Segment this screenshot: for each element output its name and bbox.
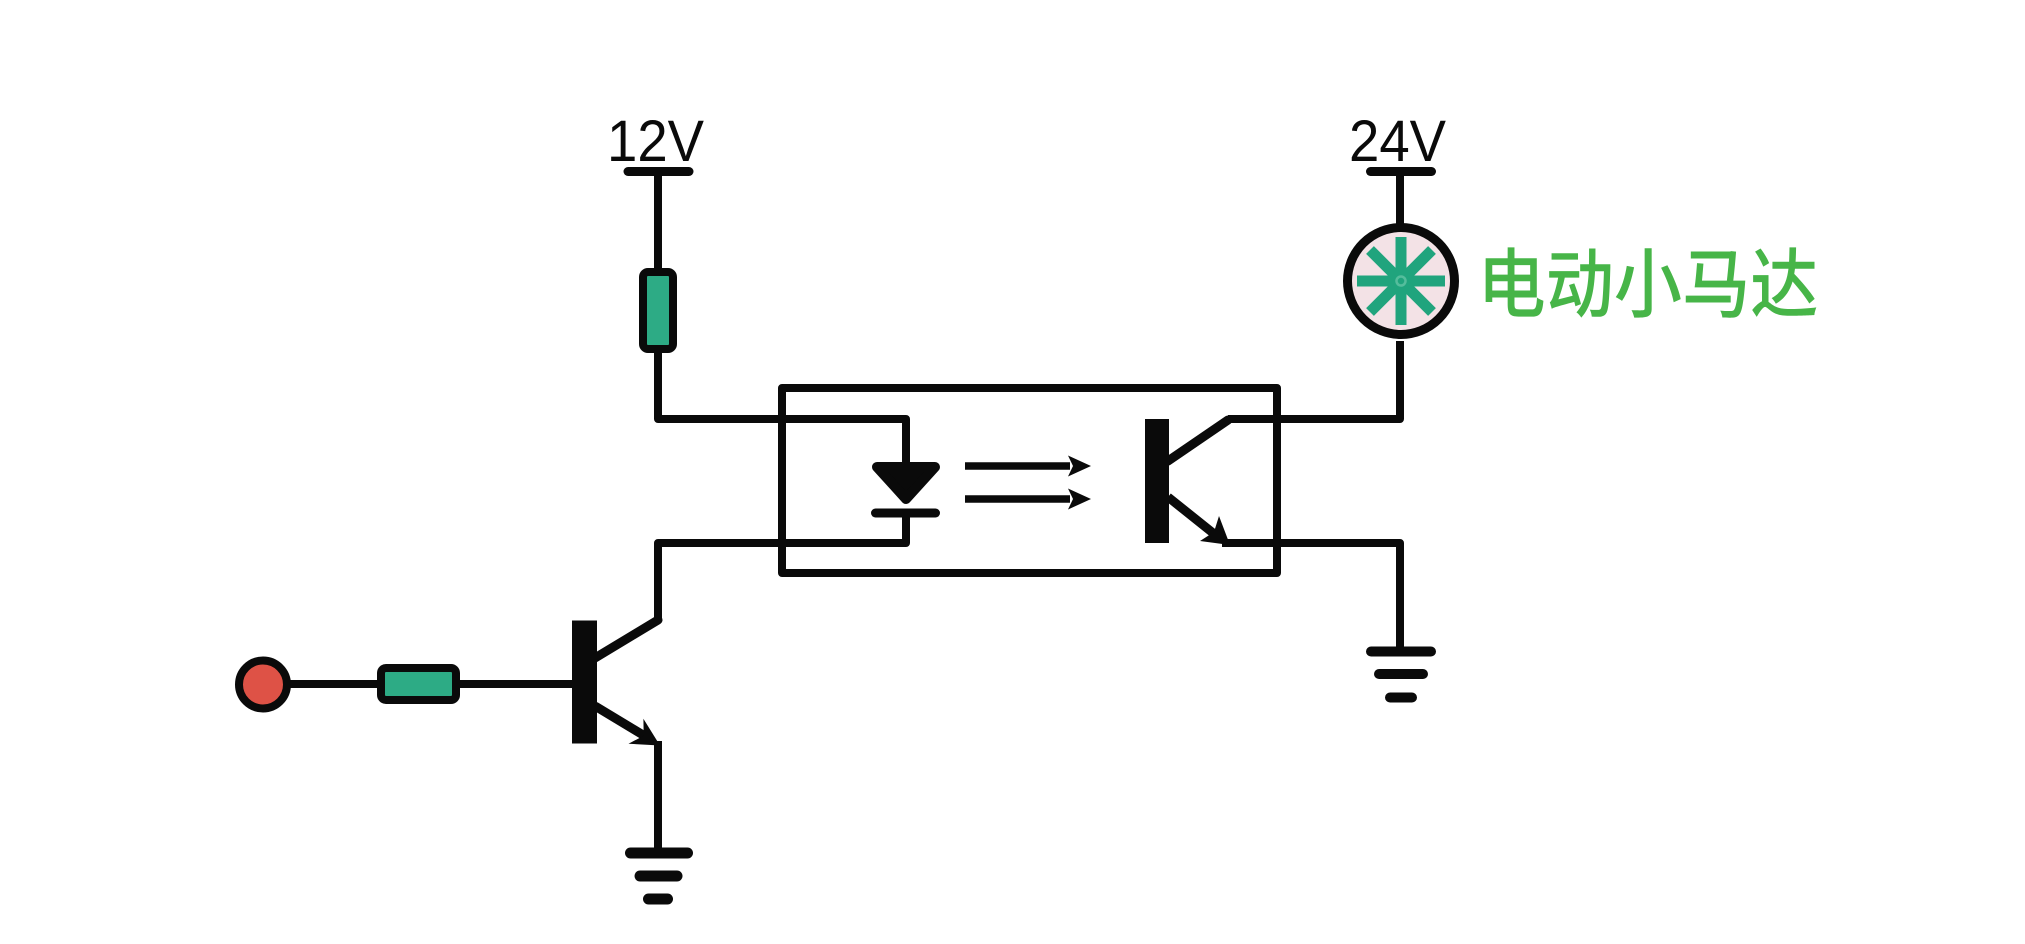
wire bbox=[654, 741, 662, 848]
wire bbox=[1396, 173, 1404, 230]
resistor R1 bbox=[643, 272, 673, 349]
wire bbox=[1222, 543, 1400, 650]
resistor R2 bbox=[381, 668, 456, 700]
phototransistor Q2 base bar bbox=[1145, 419, 1169, 543]
power rail 24V bar bbox=[1371, 167, 1432, 176]
transistor Q1 emitter lead bbox=[595, 706, 648, 738]
wire bbox=[287, 680, 380, 688]
ground (right) bbox=[1371, 652, 1431, 698]
input node bbox=[239, 661, 287, 709]
transistor Q1 base bar bbox=[572, 621, 597, 744]
svg-text:12V: 12V bbox=[607, 109, 704, 174]
light arrow 1 bbox=[965, 462, 1070, 470]
motor M1 hub bbox=[1397, 277, 1406, 286]
wire bbox=[658, 349, 906, 464]
transistor Q1 collector lead bbox=[595, 620, 658, 658]
wire bbox=[654, 173, 662, 272]
label 电动小马达 bbox=[1486, 247, 1817, 317]
motor M1 rotor star bbox=[1357, 237, 1445, 325]
power rail 12V bar bbox=[628, 167, 689, 176]
transistor Q1 emitter arrow bbox=[629, 719, 661, 746]
light arrow 2 bbox=[965, 495, 1070, 503]
LED D1 cathode bar bbox=[876, 509, 936, 518]
LED D1 triangle bbox=[877, 467, 935, 499]
phototransistor Q2 collector lead bbox=[1168, 420, 1228, 461]
motor M1 body bbox=[1348, 228, 1455, 335]
ground (left) bbox=[631, 853, 688, 899]
optocoupler U1 box bbox=[782, 388, 1277, 573]
svg-text:24V: 24V bbox=[1349, 109, 1446, 174]
wire bbox=[1228, 341, 1400, 419]
phototransistor Q2 emitter arrow bbox=[1200, 516, 1230, 545]
wire bbox=[658, 509, 906, 622]
wire bbox=[456, 680, 574, 688]
phototransistor Q2 emitter lead bbox=[1168, 497, 1218, 537]
